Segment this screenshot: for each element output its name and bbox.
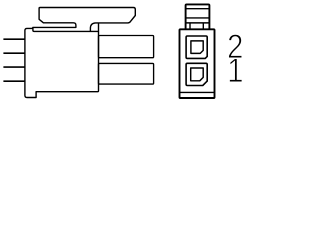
- end view outer body: [180, 29, 215, 98]
- contact window bar 2 (side view): [99, 63, 154, 84]
- latch tab upper crossbar: [186, 17, 210, 19]
- connector housing side view body with latch lever: [25, 8, 135, 98]
- latch tab left leg inner edge: [189, 23, 191, 29]
- cavity 2 outer window (upper): [186, 36, 207, 58]
- latch tab right leg inner edge: [202, 23, 204, 29]
- contact window bar 1 (side view): [99, 36, 154, 58]
- wire 3: [3, 66, 25, 68]
- cavity 1 inner square (lower): [191, 68, 204, 81]
- latch tab (end view) outer: [186, 4, 210, 29]
- latch tab lower crossbar: [186, 22, 210, 24]
- wire 4: [3, 80, 25, 82]
- svg-text:1: 1: [227, 52, 243, 90]
- latch tab top band line: [186, 8, 210, 10]
- wire 2: [3, 52, 25, 54]
- housing top edge with rear step: [33, 28, 99, 32]
- cavity 2 inner square (upper): [191, 41, 203, 54]
- end view inner bottom line: [180, 91, 215, 93]
- wire 1: [3, 38, 25, 40]
- cavity 1 outer window (lower): [186, 63, 207, 85]
